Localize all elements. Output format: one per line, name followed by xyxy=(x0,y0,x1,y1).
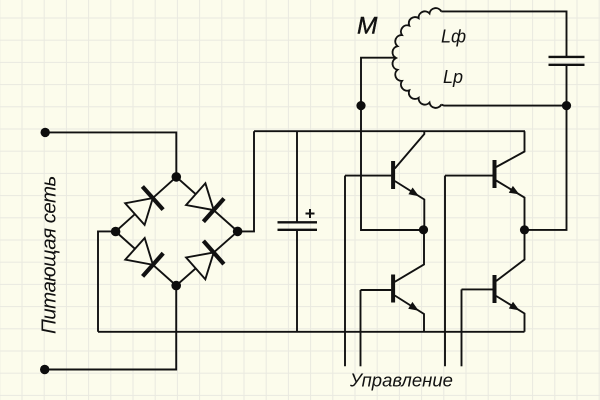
wire C2 down to right mid node xyxy=(525,65,567,230)
transistor Q2 xyxy=(361,230,425,332)
transistor Q1 xyxy=(345,131,424,230)
svg-text:Питающая сеть: Питающая сеть xyxy=(38,176,61,334)
wire control line Q3 xyxy=(444,176,446,367)
wire coil top to C2 xyxy=(441,11,566,57)
node motor tap xyxy=(356,101,365,110)
node half-bridge right mid xyxy=(520,225,529,234)
node bridge top xyxy=(172,172,182,182)
wire capacitor C1 bottom lead xyxy=(296,230,298,332)
wire motor tap xyxy=(361,58,423,230)
wire top-left AC line xyxy=(45,132,176,177)
node C2 junction xyxy=(562,101,571,110)
diode D1 top-left xyxy=(125,187,163,225)
wire control line Q1 xyxy=(344,176,346,367)
node bridge left xyxy=(111,227,121,237)
wire top rail xyxy=(254,130,525,132)
node terminal top xyxy=(41,128,50,137)
capacitor C1 xyxy=(278,222,318,230)
wire coil bottom to C2 xyxy=(441,105,566,106)
svg-text:М: М xyxy=(357,13,378,40)
wire bottom-left AC line xyxy=(45,286,177,370)
diode D3 bottom-left xyxy=(125,238,163,276)
capacitor C1 plus label xyxy=(306,209,315,218)
node half-bridge left mid xyxy=(419,225,428,234)
wire control line Q4 xyxy=(461,289,463,366)
wire bridge left node to bottom rail xyxy=(98,231,116,331)
node bridge bottom xyxy=(171,281,181,291)
svg-text:Lр: Lр xyxy=(443,67,463,87)
inductor coil M windings xyxy=(393,8,442,108)
node bridge right xyxy=(233,227,243,237)
wire bridge right node to top rail xyxy=(238,131,254,231)
transistor Q4 xyxy=(462,230,525,332)
wire capacitor C1 top lead xyxy=(296,131,298,222)
svg-text:Управление: Управление xyxy=(349,370,453,391)
svg-text:Lф: Lф xyxy=(441,27,466,47)
diode D2 top-right xyxy=(186,183,224,221)
node terminal bottom xyxy=(40,365,49,374)
wire control line Q2 xyxy=(360,290,362,366)
transistor Q3 xyxy=(445,131,525,230)
diode D4 bottom-right xyxy=(186,241,224,279)
wire bottom rail xyxy=(98,331,525,333)
capacitor C2 xyxy=(549,57,585,65)
wire bridge diamond xyxy=(116,177,238,286)
